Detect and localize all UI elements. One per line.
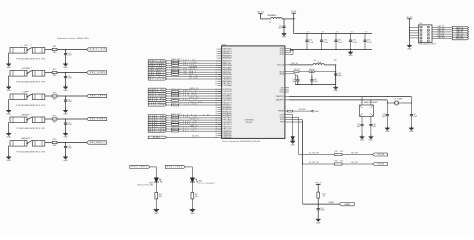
net flag CAN0_RX — [148, 123, 167, 126]
ground under C25 — [63, 85, 68, 92]
svg-text:PB7/TRST: PB7/TRST — [223, 83, 232, 85]
power flag PU_3.3 — [257, 12, 265, 19]
svg-text:28: 28 — [216, 111, 218, 113]
net flag JTAG_TDO — [452, 33, 468, 36]
svg-text:480: 480 — [53, 75, 57, 77]
svg-text:680: 680 — [159, 196, 162, 198]
wire R41 to U2 pin — [179, 114, 222, 116]
ground under SW5 — [6, 155, 11, 162]
wire SW3 to R — [45, 95, 52, 97]
svg-text:Y3: Y3 — [394, 99, 396, 101]
net flag SSI0_TX — [148, 99, 167, 102]
svg-text:480: 480 — [53, 122, 57, 124]
wire bypass bottom bus — [291, 49, 373, 50]
svg-text:PTS645SM43SMTR92 LFS: PTS645SM43SMTR92 LFS — [16, 105, 46, 107]
wire connector left pins — [409, 27, 418, 38]
svg-text:PH1/CCP7: PH1/CCP7 — [223, 129, 232, 131]
svg-text:R36 330: R36 330 — [171, 89, 181, 91]
svg-text:480: 480 — [53, 99, 57, 101]
wire SW5 to R — [45, 142, 52, 144]
wire AT_SCK to U2 pin — [167, 77, 222, 80]
svg-text:4: 4 — [216, 55, 217, 57]
resistor R45 330 — [171, 127, 181, 130]
svg-text:R41 330: R41 330 — [171, 113, 181, 115]
resistor R28 — [299, 69, 336, 72]
svg-text:SW3_LEFT: SW3_LEFT — [183, 64, 196, 66]
svg-text:SW1_UP: SW1_UP — [183, 60, 196, 62]
svg-text:GND: GND — [63, 136, 68, 138]
capacitor C31 10uF — [278, 19, 285, 34]
svg-text:R43 330: R43 330 — [171, 120, 181, 122]
LED LED4 LTST-C190KRKT — [190, 178, 215, 185]
IC right pins JTAG cluster — [280, 87, 289, 93]
wire C40 top — [295, 76, 298, 80]
svg-text:3: 3 — [216, 53, 217, 55]
resistor R39 330 — [171, 98, 181, 101]
svg-text:5: 5 — [216, 58, 217, 60]
wire TXOP down — [289, 115, 293, 137]
capacitor C47 10pF — [410, 102, 417, 127]
capacitor C26 0.1uF — [64, 96, 72, 110]
resistor R20 49.9 — [334, 160, 343, 165]
capacitor C36 0.1uF — [363, 32, 372, 50]
wire R38 to U2 pin — [179, 95, 222, 97]
net flag SW5_SELECT — [87, 141, 107, 144]
net flag UART0_TX — [148, 90, 167, 93]
svg-text:TX4_TX9: TX4_TX9 — [351, 162, 358, 164]
resistor R35 330 — [171, 72, 181, 75]
ground under bypass bank — [348, 50, 353, 58]
wire SW4 left leg — [8, 122, 9, 133]
wire R42 to U2 pin — [179, 117, 222, 119]
svg-text:PE3/SSI1TX: PE3/SSI1TX — [223, 111, 233, 113]
svg-text:18pF: 18pF — [373, 126, 377, 128]
svg-text:LED_SMB_2: LED_SMB_2 — [183, 73, 196, 75]
resistor R24 10k — [317, 192, 326, 198]
wire SW5 left leg — [8, 146, 9, 157]
svg-text:BLM18BB221: BLM18BB221 — [268, 15, 277, 17]
capacitor C42 18pF — [334, 72, 341, 85]
net flag JTAG_TDI — [452, 31, 468, 34]
ground under C45 — [360, 135, 365, 142]
svg-text:PB6/C0NEG: PB6/C0NEG — [223, 81, 233, 83]
svg-text:SW1_UP: SW1_UP — [90, 49, 106, 51]
svg-text:SW5_SELECT: SW5_SELECT — [183, 69, 197, 71]
svg-text:0.1uF: 0.1uF — [68, 101, 72, 103]
wire SW2_DOWN to R31 — [167, 62, 172, 64]
net flag GND arrow — [311, 110, 320, 113]
wire SW4_RIGHT to U2 pin — [167, 66, 222, 68]
svg-text:C44: C44 — [383, 114, 386, 116]
switch SW1 UP — [10, 44, 46, 60]
net flag I2C0_SDA — [148, 104, 167, 107]
ground under connector — [407, 43, 412, 51]
wire I2C0_SCL to U2 pin — [167, 101, 222, 103]
svg-text:R32 330: R32 330 — [171, 63, 181, 65]
svg-text:GND: GND — [190, 213, 195, 215]
ground under C46 — [369, 135, 374, 142]
svg-text:PJ2/EPI0S18: PJ2/EPI0S18 — [223, 135, 232, 137]
resistor R37 330 — [171, 91, 181, 94]
svg-text:51nH: 51nH — [318, 62, 322, 64]
svg-text:480: 480 — [53, 145, 57, 147]
wire UART0_TX to R36 — [167, 91, 172, 93]
wire R33 to U2 pin — [179, 69, 222, 71]
svg-text:3V3: 3V3 — [365, 32, 368, 34]
ground under C31 — [282, 32, 287, 39]
resistor R27 — [289, 69, 300, 72]
resistor R34 330 — [171, 70, 181, 73]
net flag SW1_UP — [87, 48, 107, 51]
svg-text:R17: R17 — [195, 194, 198, 196]
svg-text:SW5_SELECT: SW5_SELECT — [90, 142, 106, 144]
svg-text:R45 330: R45 330 — [171, 127, 181, 129]
svg-text:GND: GND — [7, 90, 12, 92]
ground under C26 — [63, 109, 68, 116]
svg-text:1k: 1k — [269, 22, 271, 24]
resistor R15 480 — [52, 139, 57, 147]
svg-text:0.1uF: 0.1uF — [323, 42, 328, 44]
svg-text:R22 4.87k: R22 4.87k — [299, 109, 306, 111]
resistor R33 330 — [171, 68, 181, 71]
wire SSI0_CLK to R37 — [167, 93, 172, 95]
ground under C28 — [63, 155, 68, 162]
net flag JTAG_TCK — [452, 26, 468, 29]
svg-text:LED3: LED3 — [149, 182, 153, 184]
wire R14 to node — [57, 118, 87, 119]
net flag SSI0_FSS — [148, 95, 167, 98]
svg-text:R19: R19 — [335, 151, 338, 153]
wire SW5_SELECT to R33 — [167, 69, 172, 71]
svg-text:OSC0: OSC0 — [280, 90, 284, 92]
svg-text:LTST-C190KRKT: LTST-C190KRKT — [198, 183, 215, 185]
wire RXIP down to TX row2 — [289, 120, 303, 164]
svg-text:R14: R14 — [53, 116, 58, 118]
svg-text:49.9: 49.9 — [340, 160, 343, 162]
svg-text:X1: X1 — [361, 102, 363, 104]
svg-text:PD3/U1TX: PD3/U1TX — [223, 102, 233, 104]
wire osc bottom rail — [295, 84, 336, 85]
svg-text:PG0/U2RX: PG0/U2RX — [223, 122, 233, 124]
svg-text:0.1uF: 0.1uF — [68, 148, 72, 150]
svg-text:1: 1 — [216, 49, 217, 51]
power flag P3.3F — [291, 11, 297, 34]
IC right pins XTAL cluster — [276, 95, 289, 101]
svg-text:PJ0/EPI0S16: PJ0/EPI0S16 — [223, 131, 232, 133]
wire SW1 to R — [45, 49, 52, 51]
svg-text:10pF: 10pF — [382, 116, 386, 118]
power flag P3.3_F reset — [315, 182, 322, 192]
wire R11 to node — [57, 49, 87, 50]
net flag CAN0_TX — [148, 126, 167, 129]
diode D5 TVS — [291, 137, 295, 142]
wire USB0_VB to R43 — [167, 121, 172, 123]
wire reset node horizontal — [303, 202, 340, 204]
svg-text:GND: GND — [63, 67, 68, 69]
wire R15 to node — [57, 142, 87, 143]
svg-text:P60_LED2: P60_LED2 — [167, 167, 182, 169]
svg-text:R20: R20 — [335, 160, 338, 162]
svg-text:TX4_TX8: TX4_TX8 — [377, 154, 384, 156]
svg-text:PD2/U1RX: PD2/U1RX — [223, 100, 233, 102]
svg-text:16: 16 — [216, 83, 218, 85]
wire XL_TX4_TX8 — [299, 153, 335, 155]
svg-text:SELECT: SELECT — [22, 138, 31, 140]
ground under C47 — [409, 126, 414, 133]
svg-text:SSI0_FSS: SSI0_FSS — [183, 95, 197, 97]
svg-text:GND: GND — [385, 131, 390, 133]
capacitor C44 10pF — [382, 102, 389, 127]
IC right pins OSC cluster — [277, 65, 289, 76]
resistor R32 330 — [171, 63, 181, 66]
svg-text:480: 480 — [53, 52, 57, 54]
net flag UART0_RX — [148, 88, 167, 91]
svg-text:PC6/CCP3: PC6/CCP3 — [223, 91, 232, 93]
svg-text:R46 330: R46 330 — [171, 129, 181, 131]
capacitor C45 18pF — [357, 116, 364, 136]
designator Y2B — [334, 60, 337, 62]
svg-text:R24: R24 — [323, 193, 326, 195]
svg-text:C46: C46 — [373, 124, 376, 126]
svg-text:PE2/SSI1RX: PE2/SSI1RX — [223, 109, 233, 111]
wire connector pin JTAG_SWO — [432, 36, 452, 39]
svg-text:VDD3: VDD3 — [280, 54, 284, 56]
wire PU_3.3 to FB1 — [261, 18, 271, 20]
wire SW3 left leg — [8, 99, 9, 110]
svg-text:2: 2 — [216, 51, 217, 53]
wire SW1 left leg — [8, 53, 9, 64]
svg-text:R11: R11 — [53, 46, 57, 48]
capacitor C33 0.1uF — [320, 32, 329, 50]
svg-text:R27 2.0k: R27 2.0k — [294, 69, 300, 71]
resistor R40 330 — [171, 103, 181, 106]
wire ADC_IN1 to R46 — [167, 130, 172, 132]
wire R32 to U2 pin — [179, 64, 222, 66]
svg-text:PB1/USB0VB: PB1/USB0VB — [223, 70, 232, 72]
capacitor C32 0.1uF — [305, 32, 314, 50]
wire TX4_TX9 — [342, 162, 372, 164]
wire LED_SMB_1 to R34 — [167, 71, 172, 73]
wire I2C0_SDA to R40 — [167, 104, 172, 106]
resistor R42 330 — [171, 116, 181, 119]
svg-text:SW2_DOWN: SW2_DOWN — [183, 62, 197, 64]
net flag TX4_TX8 — [372, 153, 387, 156]
svg-text:R13: R13 — [53, 93, 58, 95]
svg-text:38: 38 — [216, 133, 218, 135]
wire R43 to U2 pin — [179, 121, 222, 123]
ground under R17 — [190, 208, 196, 215]
resistor R14 480 — [52, 116, 57, 124]
net flag TX4_TX9 — [372, 163, 387, 166]
wire SW1_UP to R30 — [167, 60, 172, 62]
net flag SW2_DOWN — [148, 62, 167, 65]
svg-text:2: 2 — [31, 67, 32, 69]
svg-text:PE1/SSI1FSS: PE1/SSI1FSS — [223, 107, 233, 109]
svg-text:TXOP: TXOP — [280, 114, 284, 116]
IC part number text — [222, 140, 260, 143]
svg-text:17: 17 — [216, 85, 218, 87]
svg-text:R40 330: R40 330 — [171, 103, 181, 105]
svg-text:680: 680 — [195, 196, 198, 198]
net flag P60_LED1 — [130, 165, 150, 168]
svg-text:RST: RST — [281, 87, 284, 89]
IC left pin stubs — [216, 49, 222, 139]
wire R13 to node — [57, 95, 87, 96]
svg-text:GND: GND — [369, 140, 374, 142]
ferrite bead FB1 BLM18 — [268, 15, 283, 24]
net flag P60_LED2 — [165, 165, 185, 168]
svg-text:3V3: 3V3 — [351, 32, 354, 34]
svg-text:SW2_DOWN: SW2_DOWN — [90, 72, 106, 74]
ground under osc rail — [333, 85, 338, 93]
svg-text:GND: GND — [407, 48, 412, 50]
svg-text:GND: GND — [154, 213, 159, 215]
svg-text:PC7/CCP4: PC7/CCP4 — [223, 93, 232, 95]
svg-text:11pF: 11pF — [292, 81, 296, 83]
svg-text:XOSC_IN: XOSC_IN — [277, 65, 285, 67]
svg-text:R28 2.0k: R28 2.0k — [309, 69, 315, 71]
wire LED to R16 — [155, 182, 157, 192]
net flag ADC_IN0 — [148, 128, 167, 131]
resistor R44 330 — [171, 122, 181, 125]
wire ADC_IN0 to R45 — [167, 128, 172, 130]
resistor R22 4.87k — [288, 109, 312, 112]
svg-text:0.1uF: 0.1uF — [352, 42, 357, 44]
svg-text:GND: GND — [63, 90, 68, 92]
svg-text:PB0/USB0ID: PB0/USB0ID — [223, 67, 233, 69]
svg-text:USB0_VB: USB0_VB — [183, 121, 197, 123]
wire USB0_DP to R42 — [167, 117, 172, 119]
svg-text:3V3: 3V3 — [322, 32, 325, 34]
wire connector pin JTAG_TDI — [432, 30, 452, 33]
net flag JTAG_RST — [452, 35, 468, 38]
svg-text:GND: GND — [63, 160, 68, 162]
note: debounce circuits title — [57, 37, 90, 40]
net flag LED_SMB_1 — [148, 71, 167, 74]
switch SW4 RIGHT — [10, 114, 46, 130]
svg-text:R34 330: R34 330 — [171, 70, 181, 72]
svg-text:GND: GND — [348, 55, 353, 57]
svg-text:PU_3.3: PU_3.3 — [257, 12, 265, 14]
svg-text:GND: GND — [63, 113, 68, 115]
svg-text:0.1uF: 0.1uF — [338, 42, 343, 44]
LED LED3 CMD15-21VGC/TR8 — [137, 178, 161, 187]
net flag LED_SMB_2 — [148, 73, 167, 76]
IC left pin names — [223, 48, 233, 139]
wire USB0_ID to U2 pin — [167, 119, 222, 121]
svg-text:PB2/I2C0SCL: PB2/I2C0SCL — [223, 72, 232, 74]
net flag SW4_RIGHT — [148, 67, 167, 70]
capacitor C51 0.1uF — [317, 204, 325, 219]
wire XL_TX4_TX9 — [302, 162, 334, 165]
wire connector pin JTAG_RST — [432, 34, 452, 37]
svg-text:UART0_RX: UART0_RX — [190, 87, 199, 90]
wire R39 to U2 pin — [179, 99, 222, 101]
svg-text:P3.3_F: P3.3_F — [315, 182, 322, 184]
capacitor C27 0.1uF — [64, 119, 72, 133]
svg-text:2: 2 — [31, 137, 32, 139]
wire USB0_DM to R41 — [167, 115, 172, 117]
svg-text:3V3: 3V3 — [307, 32, 310, 34]
wire SSI0_RX to U2 pin — [167, 97, 222, 99]
svg-text:TX4_TX9: TX4_TX9 — [377, 164, 384, 166]
net flag ADC_IN1 — [148, 130, 167, 133]
capacitor C28 0.1uF — [64, 143, 72, 157]
svg-text:SW3_LEFT: SW3_LEFT — [90, 96, 106, 98]
resistor R19 49.9 — [334, 151, 343, 156]
capacitor C24 0.1uF — [64, 50, 72, 64]
net flag AT_CS — [148, 75, 167, 78]
svg-text:Y2B: Y2B — [334, 60, 337, 62]
svg-text:LED4: LED4 — [198, 181, 202, 183]
svg-text:PTS645SM43SMTR92 LFS: PTS645SM43SMTR92 LFS — [16, 59, 46, 61]
ground under SW1 — [6, 62, 11, 69]
resistor R43 330 — [171, 120, 181, 123]
svg-text:C47: C47 — [413, 114, 416, 116]
wire AT_SW_1 to U2 pin — [167, 135, 218, 138]
svg-text:P60_LED1: P60_LED1 — [132, 167, 147, 169]
svg-text:0.1uF: 0.1uF — [68, 55, 72, 57]
svg-text:0.1uF: 0.1uF — [367, 42, 372, 44]
svg-text:VDD3: VDD3 — [280, 48, 284, 50]
svg-text:SW4_RIGHT: SW4_RIGHT — [90, 119, 106, 121]
wire SW4 to R — [45, 118, 52, 120]
power flag PU_3.3 connector — [406, 17, 412, 43]
svg-text:GND: GND — [409, 131, 414, 133]
ground under C27 — [63, 132, 68, 139]
svg-text:J10: J10 — [419, 23, 422, 25]
ground under R16 — [154, 208, 160, 215]
wire R34 to U2 pin — [179, 71, 222, 73]
svg-text:R31 330: R31 330 — [171, 61, 181, 63]
svg-text:R37 330: R37 330 — [171, 91, 181, 93]
svg-text:GND: GND — [360, 140, 365, 142]
svg-text:10uF: 10uF — [278, 27, 282, 29]
svg-text:XL_TX4_TX9: XL_TX4_TX9 — [309, 162, 319, 164]
svg-text:VDD3: VDD3 — [280, 52, 284, 54]
wire P60_LED2 to LED — [186, 167, 193, 178]
wire R35 to U2 pin — [179, 73, 222, 75]
resistor R30 330 — [171, 59, 181, 62]
wire LED_SMB_2 to R35 — [167, 74, 172, 76]
svg-text:UP: UP — [24, 45, 28, 47]
capacitor C41 11pF — [310, 76, 317, 85]
wire LED to R17 — [191, 182, 193, 192]
IC right pins TX cluster — [278, 110, 289, 124]
svg-text:GND: GND — [291, 144, 296, 146]
svg-text:R15: R15 — [53, 139, 58, 141]
wire TX4_TX8 — [342, 153, 372, 155]
svg-text:I2C0_SCL: I2C0_SCL — [190, 101, 203, 103]
switch SW3 LEFT — [10, 91, 46, 107]
svg-text:2: 2 — [31, 114, 32, 116]
net flag USB0_VB — [148, 121, 167, 124]
crystal Y3 25MHz — [387, 97, 411, 106]
svg-text:26: 26 — [216, 107, 218, 109]
net flag I2C0_SCL — [148, 102, 167, 105]
wire SSI0_FSS to R38 — [167, 95, 172, 97]
capacitor C25 0.1uF — [64, 73, 72, 87]
svg-text:USB0_ID: USB0_ID — [190, 119, 199, 121]
capacitor C40 11pF — [292, 76, 299, 85]
net flag USB0_ID — [148, 119, 167, 122]
svg-text:25MHz: 25MHz — [397, 99, 402, 101]
capacitor C35 0.1uF — [349, 32, 358, 50]
resistor R46 330 — [171, 129, 181, 132]
crystal X1 25.000MHz module — [360, 97, 378, 117]
net flag SSI0_RX — [148, 97, 167, 100]
capacitor C46 18pF — [369, 116, 376, 136]
